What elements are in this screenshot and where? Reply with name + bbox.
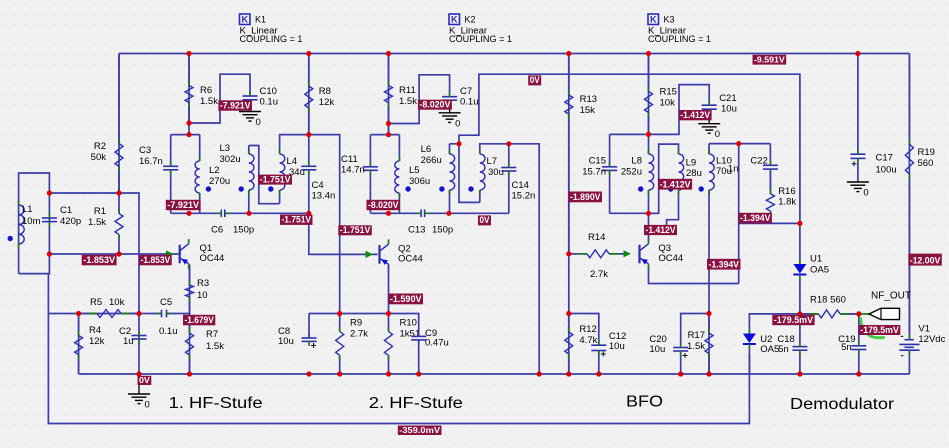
wire L2 leads — [199, 135, 201, 214]
svg-text:16.7n: 16.7n — [139, 156, 163, 167]
svg-text:R18 560: R18 560 — [810, 295, 846, 306]
voltage label 0V — [138, 375, 152, 385]
svg-text:-1.679V: -1.679V — [185, 315, 215, 325]
svg-text:C15: C15 — [589, 156, 606, 167]
wire C21 branch — [649, 85, 710, 135]
svg-text:270u: 270u — [209, 176, 230, 187]
voltage label -1.751V — [338, 225, 372, 235]
wire tank1 bottom — [171, 212, 309, 214]
svg-text:10: 10 — [197, 290, 208, 301]
svg-text:-179.5mV: -179.5mV — [860, 325, 899, 335]
wire L9 bottom lead — [667, 190, 679, 231]
wire top supply bus -9.591V — [119, 53, 909, 55]
svg-text:OA5: OA5 — [810, 265, 829, 276]
svg-text:0.1u: 0.1u — [260, 97, 279, 108]
svg-text:L9: L9 — [686, 158, 697, 169]
svg-text:0.1u: 0.1u — [460, 97, 479, 108]
wire L8 leads — [648, 134, 650, 213]
wire U1 column — [799, 223, 801, 314]
inductor L9 — [679, 150, 702, 194]
resistor R15 — [645, 54, 677, 135]
wire NF_OUT stub — [859, 313, 869, 315]
svg-text:10u: 10u — [649, 344, 665, 355]
svg-text:0: 0 — [145, 400, 150, 411]
svg-text:R2: R2 — [94, 141, 106, 152]
transistor Q3 — [640, 239, 684, 269]
svg-text:2. HF-Stufe: 2. HF-Stufe — [369, 395, 463, 412]
transistor Q1 — [180, 239, 225, 269]
svg-text:252u: 252u — [621, 167, 642, 178]
svg-text:-1.412V: -1.412V — [660, 179, 692, 189]
wire L6top node to 0V riser — [450, 143, 460, 145]
capacitor C18 — [777, 334, 807, 355]
voltage label -1.853V — [139, 255, 172, 265]
svg-text:1k51: 1k51 — [400, 329, 421, 340]
voltage label -7.921V — [218, 100, 252, 110]
svg-text:14.7n: 14.7n — [341, 165, 365, 176]
voltage label -9.591V — [753, 54, 787, 64]
svg-text:C1: C1 — [60, 205, 72, 216]
wire Q2 base from C4 tap — [309, 213, 378, 254]
wire C10 branch — [189, 74, 250, 123]
wire ground stem main — [138, 374, 140, 394]
svg-text:R9: R9 — [350, 318, 362, 329]
svg-text:R10: R10 — [400, 318, 417, 329]
svg-text:Demodulator: Demodulator — [790, 396, 894, 413]
capacitor C1 — [42, 205, 81, 227]
svg-text:C17: C17 — [876, 153, 893, 164]
resistor R11 — [385, 54, 418, 135]
resistor R14 — [569, 232, 629, 280]
wire C12 bottom — [598, 351, 600, 375]
svg-text:1.5k: 1.5k — [399, 96, 417, 107]
voltage label -1.394V — [707, 259, 741, 270]
probe marker green — [861, 319, 884, 338]
svg-text:K1: K1 — [255, 15, 266, 25]
svg-text:13.4n: 13.4n — [312, 191, 336, 202]
inductor L2 — [195, 157, 230, 197]
svg-text:R6: R6 — [200, 85, 212, 96]
svg-text:-1.751V: -1.751V — [340, 225, 371, 235]
wire R8 column — [308, 54, 310, 135]
capacitor C13 — [408, 210, 453, 236]
capacitor C21 — [702, 93, 737, 115]
resistor R6 — [185, 54, 218, 124]
phase dot L8 — [638, 186, 643, 191]
svg-text:R3: R3 — [197, 278, 209, 289]
wire C4 column — [308, 135, 310, 214]
svg-text:-1.394V: -1.394V — [740, 213, 771, 223]
wire C7 ground stem — [449, 101, 451, 113]
wire L4 top to emitter node — [280, 135, 340, 314]
inductor L7 — [480, 150, 504, 194]
wire C22 wire — [739, 143, 771, 145]
wire Q1 emitter column — [189, 265, 191, 375]
svg-text:10u: 10u — [278, 336, 294, 347]
resistor R7 — [186, 314, 225, 375]
svg-text:R5: R5 — [90, 297, 102, 308]
phase dot L5 — [405, 186, 410, 191]
svg-text:-7.921V: -7.921V — [220, 101, 251, 111]
svg-text:-1.394V: -1.394V — [709, 259, 740, 269]
wire tank2 bottom — [370, 212, 508, 214]
svg-text:R19: R19 — [918, 147, 935, 158]
svg-text:-7.921V: -7.921V — [167, 200, 200, 210]
capacitor C4 — [301, 162, 335, 202]
svg-text:L1: L1 — [22, 204, 33, 215]
svg-text:0V: 0V — [480, 215, 491, 225]
svg-text:C22: C22 — [750, 156, 767, 167]
mutual coupling K3 — [648, 14, 711, 45]
inductor L10 — [709, 150, 732, 194]
svg-text:K2: K2 — [465, 15, 476, 25]
wire C19 column — [858, 314, 860, 374]
svg-text:10u: 10u — [721, 104, 737, 115]
svg-text:0: 0 — [715, 129, 720, 140]
svg-text:C10: C10 — [260, 86, 277, 97]
svg-text:0.47u: 0.47u — [425, 338, 449, 349]
svg-text:C11: C11 — [341, 154, 358, 165]
svg-text:-1.412V: -1.412V — [680, 110, 711, 120]
svg-text:L7: L7 — [487, 156, 498, 167]
capacitor C12 — [591, 331, 626, 357]
svg-text:L3: L3 — [220, 143, 231, 154]
svg-text:0: 0 — [863, 188, 868, 199]
resistor R16 — [766, 171, 796, 223]
svg-text:-1.853V: -1.853V — [141, 255, 171, 265]
resistor R3 — [186, 265, 210, 314]
svg-text:C6: C6 — [211, 225, 223, 236]
svg-text:0.1u: 0.1u — [159, 326, 178, 337]
wire L3 column — [248, 146, 250, 214]
phase dot L3 — [239, 186, 244, 191]
title 2. HF-Stufe — [369, 395, 463, 412]
voltage label -179.5mV — [772, 315, 814, 325]
inductor L5 — [395, 157, 430, 197]
svg-text:-1.853V: -1.853V — [83, 255, 116, 265]
resistor R4 — [75, 314, 105, 375]
svg-text:5n: 5n — [778, 344, 789, 355]
svg-text:1n: 1n — [728, 164, 739, 175]
svg-text:1.5k: 1.5k — [200, 96, 218, 107]
ground C7 — [439, 113, 461, 130]
svg-text:L6: L6 — [421, 144, 432, 155]
svg-text:50k: 50k — [91, 152, 107, 163]
svg-text:C4: C4 — [312, 180, 324, 191]
svg-text:560: 560 — [918, 158, 934, 169]
wire R17 column — [708, 314, 710, 375]
capacitor C15 — [582, 156, 617, 178]
svg-text:R13: R13 — [580, 94, 597, 105]
svg-text:1.5k: 1.5k — [88, 217, 106, 228]
svg-text:C5: C5 — [160, 297, 172, 308]
wire C3 column — [170, 135, 172, 214]
resistor R5 — [79, 297, 139, 318]
voltage label -8.020V — [367, 200, 401, 210]
svg-text:R15: R15 — [660, 87, 677, 98]
wire Q3 emitter to riser — [649, 266, 739, 284]
svg-text:C14: C14 — [512, 180, 529, 191]
svg-text:1. HF-Stufe: 1. HF-Stufe — [169, 395, 263, 412]
svg-text:K3: K3 — [664, 15, 675, 25]
svg-text:COUPLING = 1: COUPLING = 1 — [648, 34, 711, 45]
resistor R10 — [385, 314, 421, 375]
inductor L1 — [19, 201, 41, 248]
resistor R8 — [305, 54, 335, 135]
wire R15 column — [648, 54, 650, 135]
resistor R12 — [565, 314, 598, 375]
wire L6 column — [449, 144, 451, 214]
wire C7 branch — [389, 75, 450, 124]
base arrow Q3 — [624, 250, 632, 257]
capacitor C14 — [501, 163, 535, 202]
svg-text:L8: L8 — [631, 156, 642, 167]
wire C21 ground stem — [708, 110, 710, 124]
svg-text:10u: 10u — [609, 341, 625, 352]
title 1. HF-Stufe — [169, 395, 263, 412]
svg-text:15k: 15k — [580, 105, 596, 116]
voltage label -1.590V — [388, 294, 423, 305]
voltage label -12.00V — [908, 254, 942, 266]
svg-text:100u: 100u — [876, 165, 897, 176]
wire C20 branch — [681, 314, 709, 346]
svg-text:1.5k: 1.5k — [206, 341, 224, 352]
inductor L3 — [220, 143, 254, 194]
svg-text:1.5k: 1.5k — [687, 341, 705, 352]
svg-text:NF_OUT: NF_OUT — [871, 291, 911, 302]
svg-text:150p: 150p — [233, 225, 254, 236]
ground C17 — [847, 182, 869, 199]
wire -1.394V node wire — [739, 222, 800, 224]
title BFO — [626, 394, 663, 411]
svg-text:COUPLING = 1: COUPLING = 1 — [449, 34, 512, 45]
wire input tank loop — [19, 173, 50, 274]
wire base node -1.853V — [49, 253, 178, 255]
svg-text:12k: 12k — [89, 336, 105, 347]
ground main 0 — [128, 394, 150, 411]
svg-text:-8.020V: -8.020V — [368, 200, 399, 210]
wire R13 column — [568, 54, 570, 254]
svg-text:R8: R8 — [319, 86, 331, 97]
svg-text:-8.020V: -8.020V — [419, 100, 451, 110]
capacitor C9 — [411, 328, 449, 349]
voltage label -8.020V — [418, 100, 452, 110]
capacitor C8 — [278, 326, 317, 348]
wire U2 riser — [749, 314, 800, 333]
wire L7 top to stage3 — [480, 144, 539, 374]
wire C14 column — [508, 144, 510, 214]
svg-text:R17: R17 — [688, 330, 705, 341]
svg-text:-1.751V: -1.751V — [260, 174, 292, 184]
svg-text:L2: L2 — [209, 165, 220, 176]
svg-text:-359.0mV: -359.0mV — [399, 425, 440, 435]
svg-text:-179.5mV: -179.5mV — [774, 315, 814, 325]
wire R5 C5 node — [79, 313, 161, 315]
capacitor C17 — [850, 150, 896, 176]
wire Q2 emitter node — [309, 313, 389, 315]
NF_OUT port — [869, 291, 911, 320]
svg-text:10m: 10m — [22, 216, 41, 227]
wire 0V bus — [459, 74, 800, 223]
ground C10 — [239, 112, 261, 129]
wire C8 top — [308, 314, 310, 339]
wire C9 branch — [389, 314, 419, 375]
wire node y193 to C5 column — [49, 193, 139, 314]
wire C22 R16 column — [769, 144, 771, 224]
svg-text:150p: 150p — [432, 225, 453, 236]
phase dot L10 — [699, 186, 704, 191]
wire riser3 to L9 top — [649, 144, 679, 213]
voltage label -1.853V — [82, 255, 117, 265]
svg-text:0V: 0V — [139, 375, 150, 385]
svg-text:C7: C7 — [460, 86, 472, 97]
wire C18 column — [799, 314, 801, 374]
wire AGC loop left — [48, 314, 749, 424]
svg-text:28u: 28u — [686, 168, 702, 179]
mutual coupling K1 — [240, 14, 303, 45]
svg-text:OC44: OC44 — [658, 253, 683, 264]
resistor R2 — [91, 54, 123, 194]
voltage label -1.679V — [183, 315, 215, 326]
title Demodulator — [790, 396, 894, 413]
wire riser1 L3top-L4bottom — [249, 146, 280, 204]
svg-text:306u: 306u — [409, 176, 430, 187]
svg-text:-1.590V: -1.590V — [390, 294, 422, 304]
wire riser2 to L7 bottom — [459, 144, 480, 203]
svg-text:R4: R4 — [89, 325, 101, 336]
svg-text:12Vdc: 12Vdc — [918, 334, 945, 345]
svg-text:10k: 10k — [109, 297, 125, 308]
wire tank1 top — [171, 134, 200, 136]
svg-text:2.7k: 2.7k — [350, 329, 368, 340]
svg-text:302u: 302u — [220, 154, 241, 165]
base arrow Q1 — [166, 250, 174, 257]
wire tank3 top — [610, 133, 649, 135]
phase dot L7 — [468, 186, 473, 191]
wire C20 bottom — [680, 353, 682, 375]
svg-text:0: 0 — [256, 117, 261, 128]
wire R4 column — [78, 314, 80, 375]
svg-text:COUPLING = 1: COUPLING = 1 — [240, 34, 303, 45]
wire C12 branch — [569, 314, 599, 346]
wire L4 bottom lead — [279, 190, 281, 204]
wire R19 V1 column — [908, 54, 910, 375]
svg-text:K: K — [650, 15, 657, 25]
capacitor C3 — [139, 145, 178, 174]
capacitor C22 — [728, 156, 778, 175]
svg-text:12k: 12k — [319, 97, 335, 108]
wire C17 column — [857, 54, 859, 154]
wire C5 to R3R7 — [168, 313, 190, 315]
phase dot L9 — [668, 186, 673, 191]
svg-text:-9.591V: -9.591V — [754, 54, 785, 64]
battery V1 — [899, 324, 945, 356]
voltage label -1.890V — [569, 192, 603, 203]
wire L10 leads — [708, 144, 710, 314]
capacitor C11 — [341, 154, 378, 176]
phase dot L1 — [8, 236, 13, 241]
svg-text:-1.890V: -1.890V — [570, 192, 601, 202]
svg-text:R14: R14 — [588, 232, 605, 243]
resistor R13 — [565, 54, 597, 254]
wire tank loop to AGC node — [47, 274, 49, 314]
inductor L8 — [621, 150, 654, 194]
svg-text:10k: 10k — [660, 98, 676, 109]
voltage label 0V — [528, 75, 541, 85]
resistor R9 — [336, 314, 369, 375]
wire R11 column — [388, 54, 390, 135]
wire Q2 emitter lead — [388, 265, 390, 314]
wire L7 bottom lead — [479, 190, 481, 202]
capacitor C2 — [119, 326, 147, 347]
svg-text:BFO: BFO — [626, 394, 663, 411]
svg-text:U1: U1 — [810, 254, 822, 265]
voltage label -359.0mV — [398, 425, 442, 435]
wire ground bus y374 — [79, 373, 910, 375]
svg-text:15.7n: 15.7n — [582, 167, 606, 178]
svg-text:0: 0 — [455, 118, 460, 129]
svg-text:15.2n: 15.2n — [512, 191, 536, 202]
svg-text:OC44: OC44 — [200, 253, 225, 264]
svg-text:C3: C3 — [139, 145, 151, 156]
svg-text:L4: L4 — [287, 156, 298, 167]
wire L10 top — [709, 143, 739, 145]
svg-text:30u: 30u — [488, 167, 504, 178]
svg-text:R16: R16 — [778, 186, 795, 197]
wire R14 base wire — [569, 253, 629, 255]
wire tank3 bottom — [610, 212, 659, 214]
svg-text:4.7k: 4.7k — [579, 335, 597, 346]
capacitor C6 — [211, 210, 254, 236]
capacitor C10 — [243, 86, 279, 108]
svg-text:R7: R7 — [206, 329, 218, 340]
svg-text:C13: C13 — [408, 225, 425, 236]
wire C2 column — [138, 314, 140, 375]
voltage label -1.751V — [280, 215, 313, 225]
base arrow Q2 — [366, 251, 374, 258]
svg-text:R11: R11 — [399, 85, 416, 96]
capacitor C20 — [649, 334, 688, 358]
phase dot L6 — [439, 186, 444, 191]
wire C15 column — [609, 134, 611, 213]
voltage label -1.751V — [258, 174, 292, 184]
svg-text:0V: 0V — [530, 75, 541, 85]
capacitor C19 — [838, 334, 866, 354]
svg-text:L5: L5 — [409, 165, 420, 176]
wire C10 ground stem — [249, 100, 251, 112]
voltage label -7.921V — [166, 200, 201, 210]
resistor R1 — [88, 193, 123, 254]
svg-text:OC44: OC44 — [398, 253, 423, 264]
svg-text:-1.751V: -1.751V — [282, 215, 312, 225]
wire C17 to ground — [857, 159, 859, 182]
voltage label 0V — [478, 215, 491, 225]
svg-text:OA5: OA5 — [760, 344, 779, 355]
voltage label -1.412V — [658, 179, 692, 190]
svg-text:5n: 5n — [841, 342, 852, 353]
capacitor C7 — [442, 86, 478, 108]
wire U2 bottom column — [748, 348, 750, 375]
wire L5 leads — [398, 135, 400, 214]
transistor Q2 — [380, 239, 423, 269]
wire R16 C22 vertical — [738, 144, 740, 284]
mutual coupling K2 — [449, 14, 512, 45]
diode U2 — [743, 329, 779, 355]
svg-text:K: K — [242, 15, 249, 25]
wire tank2 top — [370, 134, 399, 136]
svg-text:R1: R1 — [94, 206, 106, 217]
svg-text:C21: C21 — [719, 93, 736, 104]
